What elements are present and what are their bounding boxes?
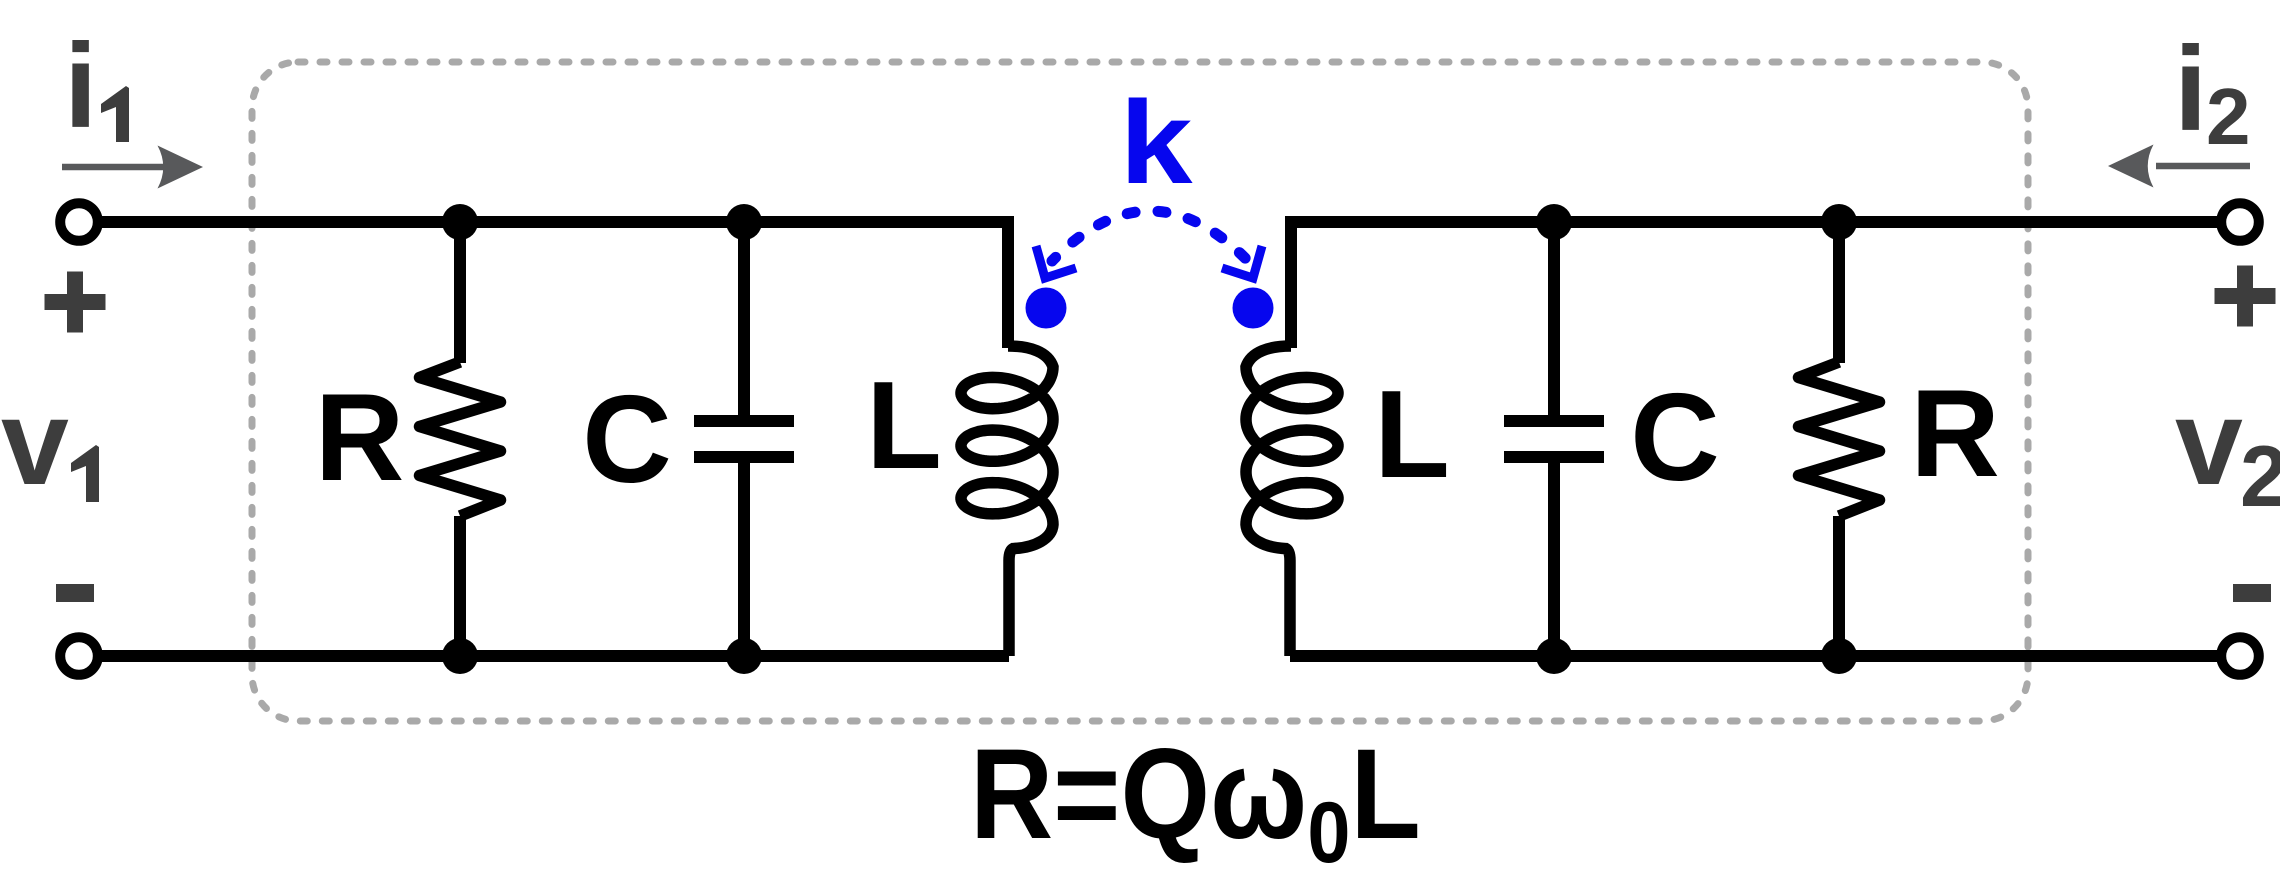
wire: top rail right — [1291, 222, 2222, 348]
node bottom-right R junction dot — [1821, 638, 1857, 674]
current arrow i2 — [2156, 163, 2250, 170]
resistor R (left), vertical leads — [454, 222, 466, 656]
minus sign left — [56, 584, 94, 602]
port terminal v1+ (open circle) — [60, 203, 98, 241]
svg-text:2: 2 — [2240, 429, 2280, 525]
svg-text:i: i — [2174, 22, 2207, 156]
node top-left R junction dot — [442, 204, 478, 240]
svg-text:R: R — [1910, 365, 2000, 503]
current arrow i1 — [62, 164, 172, 171]
resistor R (left) zigzag — [420, 362, 501, 516]
svg-text:2: 2 — [2206, 72, 2251, 161]
port terminal v2- (open circle) — [2221, 637, 2259, 675]
resistor R (right), vertical leads — [1833, 222, 1845, 656]
node bottom-left C junction dot — [726, 638, 762, 674]
svg-text:v: v — [2175, 374, 2243, 510]
resistor R (right) zigzag — [1799, 362, 1880, 516]
svg-text:R=Qω0L: R=Qω0L — [970, 722, 1421, 875]
plus sign right — [2215, 266, 2276, 327]
svg-text:L: L — [866, 357, 942, 495]
capacitor C (left), vertical leads — [738, 222, 750, 656]
svg-text:L: L — [1374, 366, 1450, 504]
coupling arc arrowhead left — [1036, 246, 1076, 278]
capacitor C (right), vertical leads — [1548, 222, 1560, 656]
port terminal v1- (open circle) — [60, 637, 98, 675]
polarity dot (right inductor) — [1233, 288, 1274, 329]
capacitor C (left) plates — [694, 421, 794, 457]
node top-right C junction dot — [1536, 204, 1572, 240]
node top-left C junction dot — [726, 204, 762, 240]
wire: bottom rail left — [97, 650, 1009, 662]
plus sign left — [45, 272, 106, 333]
two-port dashed boundary box — [252, 62, 2028, 721]
polarity dot (left inductor) — [1026, 288, 1067, 329]
inductor L (left) coil — [961, 346, 1053, 656]
node top-right R junction dot — [1821, 204, 1857, 240]
wire: top rail left — [97, 222, 1008, 348]
port terminal v2+ (open circle) — [2221, 203, 2259, 241]
svg-text:k: k — [1120, 77, 1193, 209]
minus sign right — [2233, 584, 2271, 602]
svg-text:i: i — [64, 19, 97, 153]
node bottom-right C junction dot — [1536, 638, 1572, 674]
coupling arc k (dashed) — [1052, 211, 1248, 261]
svg-text:C: C — [582, 371, 672, 509]
node bottom-left R junction dot — [442, 638, 478, 674]
svg-text:R: R — [315, 369, 405, 507]
svg-text:v: v — [1, 374, 69, 510]
wire: bottom rail right — [1290, 650, 2222, 662]
formula R=Q*omega0*L — [970, 722, 1421, 880]
coupling arc arrowhead right — [1222, 246, 1262, 278]
svg-text:C: C — [1630, 369, 1720, 507]
inductor L (right) coil — [1246, 346, 1338, 656]
capacitor C (right) plates — [1504, 421, 1604, 457]
